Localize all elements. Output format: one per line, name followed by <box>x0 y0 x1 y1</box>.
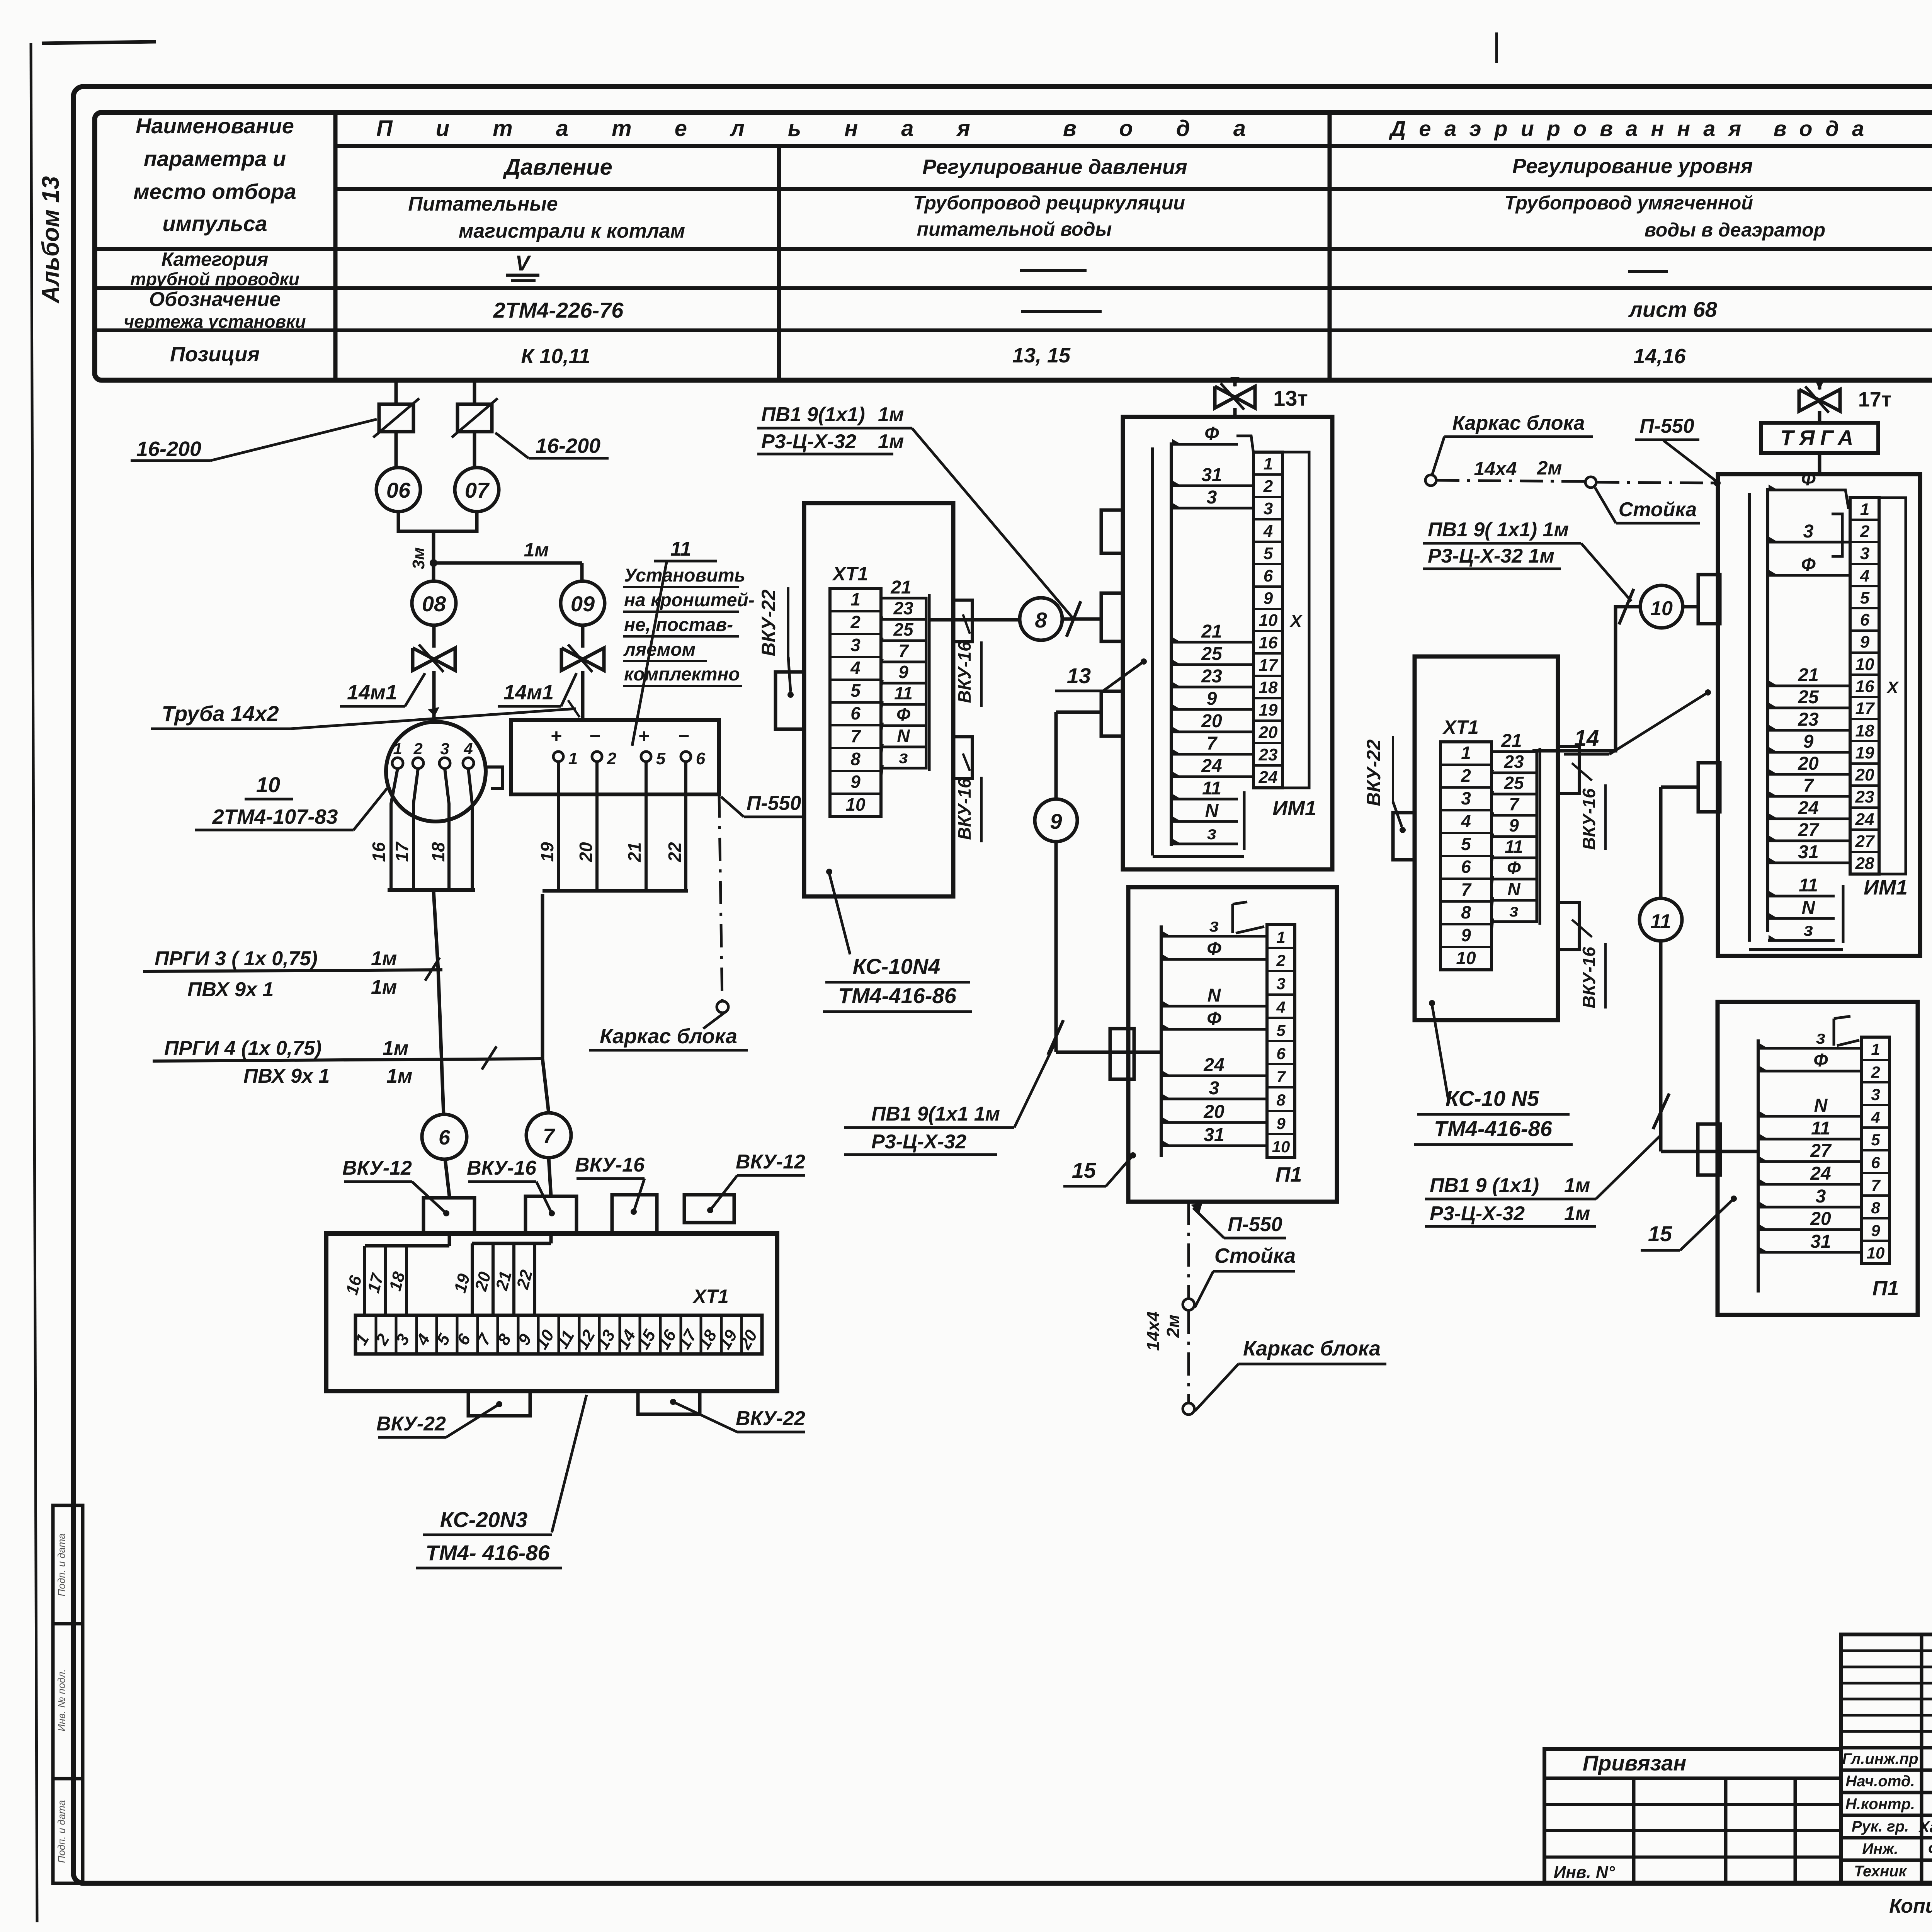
svg-text:17: 17 <box>1259 656 1279 675</box>
svg-text:ИМ1: ИМ1 <box>1864 876 1908 899</box>
svg-text:23: 23 <box>1503 752 1524 772</box>
svg-text:чертежа установки: чертежа установки <box>124 311 306 332</box>
svg-text:Деаэрированная вода: Деаэрированная вода <box>1389 116 1877 141</box>
svg-text:Установить: Установить <box>624 565 745 586</box>
svg-text:з: з <box>1207 823 1217 844</box>
svg-text:Р3-Ц-Х-32: Р3-Ц-Х-32 <box>1430 1202 1525 1225</box>
svg-text:Ф: Ф <box>1801 469 1816 490</box>
svg-text:N: N <box>1205 801 1219 821</box>
svg-text:2: 2 <box>1263 477 1273 496</box>
svg-text:1м: 1м <box>1564 1202 1590 1225</box>
svg-text:4: 4 <box>850 658 861 678</box>
svg-text:13: 13 <box>1067 663 1091 688</box>
svg-text:20: 20 <box>1259 723 1278 742</box>
svg-text:14м1: 14м1 <box>347 681 397 704</box>
svg-text:Р3-Ц-Х-32 1м: Р3-Ц-Х-32 1м <box>1428 545 1554 567</box>
svg-text:21: 21 <box>1501 731 1522 751</box>
svg-text:11: 11 <box>670 538 691 560</box>
svg-text:Ф: Ф <box>1507 858 1521 878</box>
svg-text:8: 8 <box>1871 1199 1880 1217</box>
svg-text:7: 7 <box>543 1124 556 1148</box>
svg-text:2ТМ4-226-76: 2ТМ4-226-76 <box>493 298 624 322</box>
svg-text:22: 22 <box>665 842 685 862</box>
svg-text:Н.контр.: Н.контр. <box>1845 1796 1915 1813</box>
svg-text:17: 17 <box>1855 699 1875 718</box>
svg-text:ТЯГА: ТЯГА <box>1781 425 1859 450</box>
svg-text:3: 3 <box>850 635 861 655</box>
svg-text:V: V <box>515 251 531 275</box>
svg-text:23: 23 <box>1798 709 1819 730</box>
svg-text:24: 24 <box>1855 810 1874 829</box>
svg-text:10: 10 <box>1867 1244 1885 1262</box>
svg-text:место отбора: место отбора <box>133 179 296 204</box>
svg-text:7: 7 <box>898 641 909 661</box>
svg-text:14м1: 14м1 <box>503 681 554 704</box>
svg-text:ВКУ-16: ВКУ-16 <box>1579 947 1599 1009</box>
svg-text:Альбом 13: Альбом 13 <box>37 176 64 304</box>
svg-text:Копир.: Копир. <box>1889 1895 1932 1917</box>
svg-text:1: 1 <box>1871 1040 1880 1058</box>
svg-text:Наименование: Наименование <box>136 114 294 138</box>
svg-text:16: 16 <box>369 842 389 862</box>
svg-text:Питательные: Питательные <box>408 193 558 215</box>
svg-text:23: 23 <box>893 598 913 618</box>
svg-text:9: 9 <box>1509 815 1519 835</box>
svg-text:ПРГИ 4 (1х 0,75): ПРГИ 4 (1х 0,75) <box>164 1037 321 1060</box>
svg-text:20: 20 <box>1201 711 1222 731</box>
svg-text:К 10,11: К 10,11 <box>521 345 590 368</box>
svg-text:1м: 1м <box>878 403 904 426</box>
svg-text:10: 10 <box>256 772 280 797</box>
svg-text:8: 8 <box>1461 902 1471 922</box>
svg-text:09: 09 <box>571 592 595 616</box>
svg-text:Ф: Ф <box>1207 1009 1221 1029</box>
svg-text:П-550: П-550 <box>747 792 801 815</box>
svg-text:9: 9 <box>1207 689 1217 709</box>
svg-text:КС-10 N5: КС-10 N5 <box>1446 1086 1539 1111</box>
svg-text:КС-20N3: КС-20N3 <box>440 1507 528 1532</box>
svg-text:11: 11 <box>1650 910 1671 933</box>
svg-text:1м: 1м <box>371 976 397 998</box>
svg-text:14,16: 14,16 <box>1633 345 1686 368</box>
svg-text:ТМ4- 416-86: ТМ4- 416-86 <box>425 1541 550 1565</box>
svg-text:Р3-Ц-Х-32: Р3-Ц-Х-32 <box>761 430 856 453</box>
svg-text:11: 11 <box>1505 837 1523 857</box>
svg-text:1: 1 <box>568 749 578 768</box>
svg-text:10: 10 <box>1272 1138 1290 1156</box>
svg-text:10: 10 <box>845 794 866 815</box>
svg-text:Техник: Техник <box>1854 1863 1907 1880</box>
svg-text:3м: 3м <box>409 547 428 569</box>
svg-text:11: 11 <box>894 683 913 703</box>
svg-text:23: 23 <box>1855 787 1874 806</box>
svg-text:ВКУ-22: ВКУ-22 <box>376 1413 446 1435</box>
svg-text:6: 6 <box>696 749 706 768</box>
svg-text:ВКУ-12: ВКУ-12 <box>342 1157 412 1179</box>
svg-text:N: N <box>1207 985 1221 1006</box>
svg-text:N: N <box>897 726 910 746</box>
svg-text:27: 27 <box>1798 820 1820 840</box>
svg-text:КС-10N4: КС-10N4 <box>853 954 940 978</box>
svg-text:27: 27 <box>1855 832 1875 851</box>
svg-text:24: 24 <box>1798 798 1818 818</box>
svg-text:16: 16 <box>1259 633 1278 652</box>
svg-text:ПВХ 9х 1: ПВХ 9х 1 <box>187 978 274 1001</box>
svg-text:8: 8 <box>1276 1091 1286 1109</box>
svg-text:воды в деаэратор: воды в деаэратор <box>1645 219 1825 241</box>
svg-text:Инв. N°: Инв. N° <box>1554 1863 1615 1882</box>
svg-text:9: 9 <box>1803 731 1814 752</box>
svg-text:9: 9 <box>1871 1221 1880 1240</box>
svg-text:06: 06 <box>386 478 411 502</box>
svg-text:17: 17 <box>392 841 412 862</box>
svg-text:ТМ4-416-86: ТМ4-416-86 <box>1434 1116 1553 1141</box>
svg-text:21: 21 <box>624 842 645 862</box>
svg-text:Регулирование давления: Регулирование давления <box>922 155 1187 179</box>
svg-text:параметра и: параметра и <box>144 146 286 171</box>
svg-text:ВКУ-22: ВКУ-22 <box>1363 739 1384 806</box>
svg-text:9: 9 <box>1264 589 1273 608</box>
svg-text:20: 20 <box>1810 1209 1831 1229</box>
svg-text:ляемом: ляемом <box>623 639 696 660</box>
svg-text:питательной воды: питательной воды <box>917 218 1112 240</box>
svg-text:28: 28 <box>1855 854 1874 873</box>
svg-text:N: N <box>1507 879 1520 899</box>
svg-text:Стойка: Стойка <box>1214 1244 1296 1267</box>
svg-text:25: 25 <box>1503 773 1524 793</box>
svg-text:1: 1 <box>1276 928 1285 946</box>
svg-text:Ф: Ф <box>896 704 910 724</box>
svg-text:−: − <box>589 725 600 747</box>
svg-text:2ТМ4-107-83: 2ТМ4-107-83 <box>212 805 338 828</box>
svg-text:Обозначение: Обозначение <box>149 288 281 311</box>
svg-text:П1: П1 <box>1276 1163 1302 1186</box>
svg-text:Ф: Ф <box>1813 1050 1828 1071</box>
svg-text:24: 24 <box>1259 768 1278 787</box>
svg-text:7: 7 <box>1871 1176 1881 1194</box>
svg-text:Р3-Ц-Х-32: Р3-Ц-Х-32 <box>871 1131 966 1153</box>
svg-text:6: 6 <box>1264 566 1273 585</box>
svg-text:Инв. № подл.: Инв. № подл. <box>56 1669 67 1731</box>
svg-text:П-550: П-550 <box>1228 1213 1282 1236</box>
svg-text:11: 11 <box>1811 1118 1830 1139</box>
svg-text:6: 6 <box>439 1126 451 1149</box>
svg-text:3: 3 <box>1871 1085 1880 1104</box>
svg-text:+: + <box>638 725 649 747</box>
svg-text:6: 6 <box>1860 611 1870 629</box>
svg-text:1м: 1м <box>386 1065 412 1087</box>
svg-text:не, постав-: не, постав- <box>624 615 733 635</box>
svg-text:24: 24 <box>1810 1163 1831 1184</box>
svg-text:2: 2 <box>413 740 422 758</box>
svg-text:19: 19 <box>537 842 557 862</box>
svg-text:1: 1 <box>393 740 402 758</box>
svg-text:3: 3 <box>1816 1186 1826 1207</box>
svg-text:6: 6 <box>850 703 861 723</box>
svg-text:Подп. и дата: Подп. и дата <box>56 1800 67 1863</box>
svg-text:31: 31 <box>1810 1231 1831 1252</box>
svg-text:ПРГИ 3 ( 1х 0,75): ПРГИ 3 ( 1х 0,75) <box>155 947 318 970</box>
svg-text:10: 10 <box>1259 611 1278 630</box>
svg-text:ХТ1: ХТ1 <box>832 563 868 585</box>
svg-text:25: 25 <box>1201 644 1223 664</box>
svg-text:5: 5 <box>1871 1131 1880 1149</box>
svg-text:Рук. гр.: Рук. гр. <box>1852 1818 1909 1835</box>
svg-text:15: 15 <box>1072 1158 1096 1182</box>
svg-text:08: 08 <box>422 592 446 616</box>
svg-text:Привязан: Привязан <box>1583 1751 1686 1775</box>
svg-text:20: 20 <box>576 842 596 862</box>
svg-text:ВКУ-16: ВКУ-16 <box>954 641 975 703</box>
svg-text:20: 20 <box>1798 753 1819 774</box>
svg-text:13, 15: 13, 15 <box>1012 344 1071 367</box>
svg-text:Трубопровод умягченной: Трубопровод умягченной <box>1504 192 1753 214</box>
svg-text:9: 9 <box>1461 925 1471 945</box>
svg-text:31: 31 <box>1201 465 1222 485</box>
svg-text:07: 07 <box>465 478 490 502</box>
svg-text:1: 1 <box>1461 743 1471 763</box>
svg-text:Ф: Ф <box>1207 939 1221 959</box>
svg-text:4: 4 <box>1860 566 1869 585</box>
svg-text:16: 16 <box>1855 677 1874 696</box>
svg-text:лист 68: лист 68 <box>1628 297 1718 321</box>
svg-text:Трубопровод рециркуляции: Трубопровод рециркуляции <box>913 192 1185 214</box>
svg-text:4: 4 <box>1276 998 1285 1016</box>
svg-text:−: − <box>678 725 689 747</box>
svg-text:5: 5 <box>656 749 666 768</box>
svg-text:ВКУ-16: ВКУ-16 <box>575 1154 645 1176</box>
svg-text:з: з <box>1509 900 1518 920</box>
svg-text:25: 25 <box>893 619 914 639</box>
svg-text:5: 5 <box>850 680 861 701</box>
svg-text:25: 25 <box>1798 687 1819 707</box>
svg-text:Инж.: Инж. <box>1862 1840 1898 1857</box>
svg-text:П1: П1 <box>1872 1277 1899 1300</box>
svg-text:з: з <box>1209 915 1219 936</box>
svg-text:1м: 1м <box>524 539 549 561</box>
svg-text:X: X <box>1289 612 1303 631</box>
svg-text:23: 23 <box>1259 745 1278 764</box>
svg-text:1м: 1м <box>1564 1174 1590 1197</box>
svg-text:Каркас блока: Каркас блока <box>1452 412 1585 434</box>
svg-text:на кронштей-: на кронштей- <box>624 590 755 611</box>
svg-text:20: 20 <box>1203 1102 1225 1122</box>
svg-text:ВКУ-22: ВКУ-22 <box>1928 726 1932 793</box>
svg-text:9: 9 <box>850 772 861 792</box>
svg-text:2м: 2м <box>1537 457 1562 479</box>
svg-text:ПВ1 9 (1х1): ПВ1 9 (1х1) <box>1430 1174 1539 1197</box>
svg-text:16-200: 16-200 <box>536 434 600 457</box>
svg-text:X: X <box>1886 678 1899 697</box>
svg-text:7: 7 <box>1803 776 1815 796</box>
svg-text:2: 2 <box>1871 1063 1880 1081</box>
svg-text:6: 6 <box>1871 1153 1880 1172</box>
svg-text:31: 31 <box>1204 1125 1224 1145</box>
svg-text:1: 1 <box>1264 454 1273 473</box>
svg-text:ХТ1: ХТ1 <box>1442 716 1479 738</box>
svg-text:10: 10 <box>1456 948 1476 968</box>
svg-text:16-200: 16-200 <box>136 437 201 461</box>
svg-text:N: N <box>1814 1095 1828 1116</box>
svg-text:3: 3 <box>1860 544 1869 563</box>
svg-text:ПВ1 9( 1х1) 1м: ПВ1 9( 1х1) 1м <box>1428 519 1569 541</box>
svg-text:ВКУ-16: ВКУ-16 <box>954 778 975 840</box>
svg-text:ВКУ-22: ВКУ-22 <box>758 589 779 656</box>
svg-text:3: 3 <box>1803 521 1814 542</box>
svg-text:21: 21 <box>890 577 911 598</box>
svg-text:13т: 13т <box>1273 386 1308 410</box>
svg-text:21: 21 <box>1201 621 1222 642</box>
svg-text:з: з <box>1804 920 1813 940</box>
svg-text:24: 24 <box>1203 1055 1224 1075</box>
svg-text:1м: 1м <box>371 947 397 970</box>
svg-text:ИМ1: ИМ1 <box>1272 797 1316 820</box>
svg-text:1м: 1м <box>383 1037 408 1060</box>
svg-text:Давление: Давление <box>502 155 612 180</box>
svg-text:Гл.инж.пр: Гл.инж.пр <box>1842 1750 1918 1767</box>
svg-text:19: 19 <box>1259 701 1278 719</box>
svg-text:1м: 1м <box>878 430 904 453</box>
svg-text:5: 5 <box>1276 1021 1286 1039</box>
svg-text:9: 9 <box>898 662 908 682</box>
svg-text:6: 6 <box>1461 857 1471 877</box>
svg-text:3: 3 <box>1461 788 1471 808</box>
svg-text:8: 8 <box>1035 608 1047 632</box>
svg-text:2: 2 <box>850 612 861 632</box>
svg-text:3: 3 <box>1264 499 1273 518</box>
svg-text:14: 14 <box>1574 726 1599 751</box>
svg-text:7: 7 <box>1461 879 1472 900</box>
svg-text:ВКУ-16: ВКУ-16 <box>467 1157 537 1179</box>
svg-text:3: 3 <box>1207 487 1217 508</box>
svg-text:5: 5 <box>1461 834 1471 854</box>
svg-text:18: 18 <box>1855 721 1874 740</box>
svg-text:11: 11 <box>1202 778 1221 799</box>
svg-text:магистрали к котлам: магистрали к котлам <box>459 220 685 242</box>
svg-text:20: 20 <box>1855 765 1874 784</box>
svg-text:2: 2 <box>1276 951 1285 969</box>
svg-text:2: 2 <box>1461 765 1471 786</box>
svg-text:ВКУ-12: ВКУ-12 <box>736 1151 805 1173</box>
svg-text:4: 4 <box>1871 1108 1880 1126</box>
svg-text:ХТ1: ХТ1 <box>692 1286 729 1307</box>
svg-text:Харитонова: Харитонова <box>1918 1818 1932 1836</box>
svg-text:18: 18 <box>428 842 448 862</box>
svg-text:Фетисова: Фетисова <box>1928 1840 1932 1858</box>
svg-text:21: 21 <box>1798 665 1818 685</box>
svg-text:2: 2 <box>607 749 617 768</box>
svg-text:9: 9 <box>1050 809 1062 833</box>
svg-text:18: 18 <box>1259 678 1278 697</box>
svg-text:7: 7 <box>1509 794 1520 814</box>
svg-text:трубной проводки: трубной проводки <box>130 269 299 289</box>
svg-text:з: з <box>899 747 908 767</box>
svg-text:Каркас блока: Каркас блока <box>600 1025 737 1048</box>
svg-text:4: 4 <box>463 740 473 758</box>
svg-text:14х4: 14х4 <box>1474 458 1517 480</box>
svg-text:з: з <box>1816 1027 1826 1048</box>
svg-text:7: 7 <box>850 726 861 746</box>
svg-text:Позиция: Позиция <box>170 343 260 366</box>
svg-text:9: 9 <box>1860 633 1870 651</box>
svg-text:ВКУ-22: ВКУ-22 <box>736 1407 805 1430</box>
svg-text:7: 7 <box>1276 1068 1286 1086</box>
svg-text:5: 5 <box>1264 544 1273 563</box>
svg-text:8: 8 <box>850 749 861 769</box>
svg-text:10: 10 <box>1650 597 1673 620</box>
svg-text:9: 9 <box>1276 1114 1286 1133</box>
svg-text:14х4: 14х4 <box>1143 1311 1163 1351</box>
svg-text:1: 1 <box>1860 500 1869 519</box>
svg-text:31: 31 <box>1798 842 1818 862</box>
svg-text:комплектно: комплектно <box>624 664 740 685</box>
svg-text:Ф: Ф <box>1204 423 1219 444</box>
svg-text:4: 4 <box>1263 522 1273 541</box>
svg-text:3: 3 <box>440 740 449 758</box>
svg-text:Подп. и дата: Подп. и дата <box>56 1534 67 1597</box>
svg-text:7: 7 <box>1207 733 1218 754</box>
svg-text:N: N <box>1802 898 1816 918</box>
svg-text:ПВ1 9(1х1 1м: ПВ1 9(1х1 1м <box>871 1103 1000 1125</box>
svg-text:1: 1 <box>850 589 861 609</box>
svg-text:Каркас блока: Каркас блока <box>1243 1337 1381 1360</box>
svg-text:2м: 2м <box>1163 1315 1183 1338</box>
svg-text:импульса: импульса <box>162 211 267 236</box>
svg-text:2: 2 <box>1860 522 1870 541</box>
svg-text:27: 27 <box>1810 1141 1832 1161</box>
svg-text:15: 15 <box>1648 1221 1672 1246</box>
svg-text:П-550: П-550 <box>1639 415 1694 437</box>
svg-text:ТМ4-416-86: ТМ4-416-86 <box>838 983 957 1008</box>
svg-text:Нач.отд.: Нач.отд. <box>1845 1773 1915 1790</box>
svg-text:3: 3 <box>1276 975 1285 993</box>
svg-text:Питательная вода: Питательная вода <box>376 116 1289 141</box>
svg-text:10: 10 <box>1855 655 1874 674</box>
svg-text:4: 4 <box>1461 811 1471 831</box>
svg-text:Регулирование уровня: Регулирование уровня <box>1512 155 1753 178</box>
svg-text:11: 11 <box>1799 875 1818 896</box>
svg-text:+: + <box>550 725 561 747</box>
svg-text:17т: 17т <box>1858 388 1892 411</box>
svg-text:23: 23 <box>1201 666 1222 687</box>
svg-text:Стойка: Стойка <box>1619 498 1697 521</box>
svg-text:6: 6 <box>1276 1044 1286 1063</box>
svg-text:ВКУ-16: ВКУ-16 <box>1579 788 1599 850</box>
svg-text:Категория: Категория <box>162 248 269 270</box>
svg-text:5: 5 <box>1860 588 1870 607</box>
svg-text:Ф: Ф <box>1801 554 1816 575</box>
svg-text:24: 24 <box>1201 756 1222 776</box>
svg-text:ПВХ 9х 1: ПВХ 9х 1 <box>243 1065 330 1087</box>
svg-text:3: 3 <box>1209 1078 1219 1099</box>
svg-text:Труба 14х2: Труба 14х2 <box>162 701 279 726</box>
svg-text:ПВ1 9(1х1): ПВ1 9(1х1) <box>761 403 865 426</box>
svg-text:19: 19 <box>1855 743 1874 762</box>
